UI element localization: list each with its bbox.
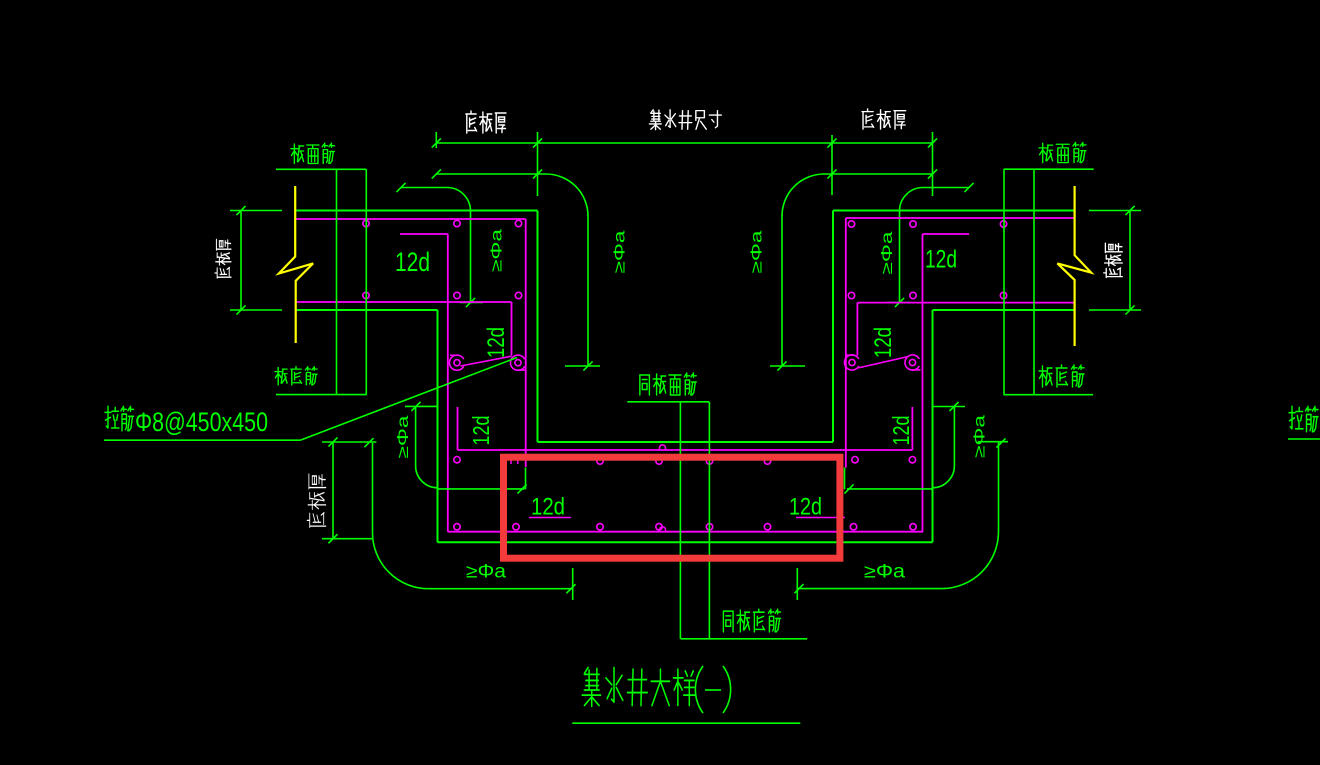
- svg-text:12d: 12d: [468, 416, 494, 446]
- svg-text:12d: 12d: [395, 247, 430, 277]
- svg-text:Φ8@450x450: Φ8@450x450: [135, 407, 268, 437]
- svg-text:≥Φa: ≥Φa: [879, 231, 896, 275]
- svg-text:≥Φa: ≥Φa: [395, 415, 412, 459]
- svg-text:12d: 12d: [870, 327, 897, 358]
- svg-text:≥Φa: ≥Φa: [612, 230, 629, 274]
- svg-text:≥Φa: ≥Φa: [972, 414, 989, 458]
- svg-text:≥Φa: ≥Φa: [489, 228, 506, 272]
- svg-text:12d: 12d: [531, 494, 565, 521]
- svg-text:12d: 12d: [789, 494, 822, 521]
- svg-text:12d: 12d: [483, 327, 510, 358]
- svg-text:≥Φa: ≥Φa: [749, 230, 766, 274]
- svg-text:12d: 12d: [925, 246, 957, 274]
- svg-text:12d: 12d: [888, 416, 914, 446]
- svg-text:≥Φa: ≥Φa: [466, 562, 506, 583]
- svg-text:≥Φa: ≥Φa: [864, 562, 905, 583]
